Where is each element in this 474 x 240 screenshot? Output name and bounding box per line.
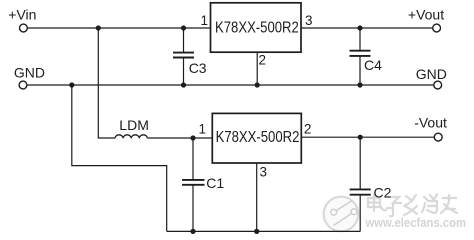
svg-text:3: 3 [259, 165, 267, 180]
svg-text:GND: GND [14, 65, 45, 81]
wire U1 pin2 to GND rail [256, 52, 258, 85]
capacitor C3 [173, 28, 194, 85]
terminal +Vin [20, 24, 28, 32]
wire U2 pin3 to bottom rail [256, 163, 258, 231]
svg-text:-Vout: -Vout [414, 115, 447, 131]
svg-text:LDM: LDM [119, 117, 149, 133]
svg-text:2: 2 [258, 53, 266, 68]
capacitor C1 [182, 138, 205, 231]
wire U1 pin3 to +Vout [301, 27, 433, 29]
svg-text:1: 1 [198, 121, 206, 136]
svg-text:K78XX-500R2: K78XX-500R2 [215, 20, 299, 37]
node junction C1 bottom [190, 229, 195, 234]
svg-text:K78XX-500R2: K78XX-500R2 [216, 129, 300, 146]
wire top rail +Vin to U1 pin1 [27, 27, 210, 29]
svg-text:1: 1 [201, 13, 209, 28]
wire GND rail [27, 84, 434, 86]
capacitor C2 [350, 137, 371, 231]
wire LDM to U2 pin1 [147, 137, 212, 139]
node junction top rail x98 [96, 25, 101, 30]
svg-text:www.elecfans.com: www.elecfans.com [365, 216, 466, 230]
wire GND down-step to bottom rail [72, 85, 167, 231]
terminal GND left [19, 81, 27, 89]
node junction C4 top [357, 25, 362, 30]
watermark logo circle [324, 197, 359, 232]
node junction C4 bottom [357, 82, 362, 87]
wire +Vin branch down to LDM [98, 28, 115, 138]
terminal +Vout [433, 24, 441, 32]
svg-text:C1: C1 [206, 175, 224, 191]
svg-text:C4: C4 [364, 57, 382, 73]
node junction C2 top [358, 135, 363, 140]
svg-text:2: 2 [304, 121, 312, 136]
svg-text:GND: GND [416, 66, 447, 82]
regulator U2 box [212, 113, 301, 163]
terminal -Vout [434, 133, 442, 141]
regulator U1 box [211, 3, 302, 52]
svg-text:+Vin: +Vin [8, 6, 36, 22]
wire U2 pin2 to -Vout [301, 136, 435, 138]
node junction C1 top [190, 135, 195, 140]
node junction U2 pin3 bottom [254, 229, 259, 234]
inductor LDM coil [115, 135, 147, 139]
node junction C3 bottom [181, 82, 186, 87]
wire bottom rail [167, 230, 361, 232]
svg-text:+Vout: +Vout [408, 7, 444, 23]
svg-text:C3: C3 [189, 60, 207, 76]
capacitor C4 [350, 28, 371, 85]
svg-text:C2: C2 [374, 185, 392, 201]
watermark chinese 电子发烧友 [368, 194, 457, 216]
terminal GND right [434, 81, 442, 89]
node junction U1 pin2 GND [255, 82, 260, 87]
svg-text:3: 3 [305, 13, 313, 28]
node junction C3 top [181, 25, 186, 30]
node junction GND x72 [69, 82, 74, 87]
